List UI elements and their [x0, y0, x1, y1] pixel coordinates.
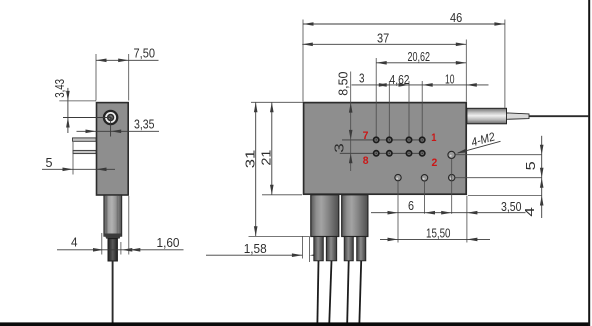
label 4-M2 leader line [458, 141, 501, 153]
dim 21 arrows [270, 102, 274, 112]
right dim vertical line [541, 136, 543, 218]
lower hole middle [421, 175, 427, 181]
dim 7,50 extension lines [95, 54, 97, 101]
dim 7,50 arrows [96, 59, 107, 63]
bottom connector block left [311, 195, 339, 237]
lower hole left [395, 174, 401, 180]
dim 37 line [302, 43, 466, 45]
dim 7,50 line [96, 59, 159, 61]
dim 6 and 3,50 line [371, 212, 526, 214]
module body front view [304, 103, 467, 195]
svg-text:1,58: 1,58 [244, 242, 267, 256]
svg-text:1,60: 1,60 [157, 236, 180, 250]
svg-text:4: 4 [523, 207, 537, 217]
svg-text:20,62: 20,62 [408, 50, 431, 64]
hole extension verticals [397, 181, 399, 243]
dim 15,50 line [380, 238, 490, 240]
fiber lead right [529, 115, 588, 117]
dim 31 arrows [254, 102, 258, 112]
table border bottom [0, 322, 590, 326]
module body side view [97, 103, 129, 195]
feedthrough pins 2 rows of 4 [373, 136, 380, 143]
svg-text:8,50: 8,50 [337, 71, 351, 95]
bottom connector block right [342, 195, 368, 237]
lens barrel inner ring [107, 114, 114, 121]
lower hole right [449, 174, 455, 180]
lens centerline vertical [110, 118, 112, 137]
dim 46 line [303, 23, 505, 25]
lens center [108, 115, 112, 119]
dim 20,62 line [376, 62, 466, 64]
pin tab lower [73, 150, 96, 153]
dim 5 line [42, 168, 115, 170]
top extension verticals [302, 20, 304, 102]
dim 5 arrows [63, 168, 74, 172]
fiber snout cylinder [467, 108, 507, 124]
stem shading lines [106, 196, 108, 235]
dim 15,50 arrows [388, 238, 399, 242]
dim 1,58 extension lines [302, 237, 304, 259]
dim 4 right arrow [540, 196, 544, 206]
svg-text:4-M2: 4-M2 [470, 129, 497, 149]
dim 6 arrows [388, 211, 399, 215]
dim 5 extension line [72, 142, 74, 175]
right extension h lines [455, 154, 541, 156]
svg-text:8: 8 [363, 155, 369, 167]
svg-text:5: 5 [524, 161, 538, 170]
svg-text:31: 31 [244, 150, 258, 169]
lens barrel white ring [105, 112, 116, 123]
dim 8,50 arrows [349, 103, 353, 113]
svg-text:7,50: 7,50 [134, 47, 156, 61]
mounting hole M2 top right [448, 151, 455, 158]
dim 3,43 line [67, 88, 69, 133]
wire leads x4 [317, 261, 318, 323]
svg-text:46: 46 [450, 11, 462, 25]
dim 3,50 arrows [441, 211, 452, 215]
dim 4 / 1,60 extension lines [101, 233, 103, 255]
lens barrel outer ring [103, 110, 119, 126]
svg-text:10: 10 [445, 72, 455, 86]
dim 3,43 arrows [66, 91, 70, 101]
svg-text:4: 4 [71, 235, 78, 249]
svg-text:3,35: 3,35 [134, 117, 155, 131]
dim 3,43 ext top [59, 100, 96, 102]
svg-text:3,50: 3,50 [501, 200, 522, 214]
dim 31 line [255, 102, 257, 236]
svg-text:2: 2 [432, 157, 438, 169]
dim 3 rows arrow [349, 153, 353, 163]
fiber lead down [112, 261, 114, 323]
dim 5 right arrows [540, 145, 544, 155]
pin column extension lines [375, 58, 377, 140]
svg-text:3: 3 [359, 71, 365, 85]
dim 21 line [271, 102, 273, 195]
svg-text:5: 5 [46, 156, 53, 170]
stem below body [104, 195, 122, 236]
svg-text:3,43: 3,43 [53, 79, 67, 98]
svg-text:1: 1 [431, 132, 436, 144]
dim 20,62 arrows [376, 61, 387, 65]
svg-text:15,50: 15,50 [426, 227, 451, 241]
left extension h lines [251, 101, 303, 103]
dim 4 / 1,60 line [57, 249, 184, 251]
svg-text:37: 37 [377, 31, 389, 45]
svg-text:21: 21 [260, 150, 274, 166]
dim 4 / 1,60 arrows [93, 248, 104, 252]
dim 46 arrows [303, 22, 314, 26]
pin pitch dim line [352, 84, 489, 86]
dim 37 arrows [302, 43, 313, 47]
dim 3,35 line [77, 130, 160, 132]
lens centerline horizontal [63, 117, 111, 119]
svg-text:6: 6 [408, 199, 414, 213]
dim 1,58 arrows [292, 253, 303, 257]
svg-text:7: 7 [363, 130, 369, 142]
pin row line 2 [340, 152, 423, 154]
pin row line 1 [342, 139, 422, 141]
svg-text:4,62: 4,62 [390, 73, 410, 87]
fiber boot tube [507, 113, 530, 119]
pin pitch arrows [376, 83, 387, 87]
dim 3,35 arrows [86, 130, 97, 134]
stem neck [104, 234, 121, 239]
label 4-M2 leader arrowhead [456, 149, 467, 154]
lead stems x4 [314, 237, 324, 261]
ferrule [108, 239, 117, 261]
pin tab upper [73, 138, 97, 141]
table border right [588, 0, 590, 326]
svg-text:3: 3 [333, 143, 347, 153]
dim 1,58 line [206, 254, 302, 256]
